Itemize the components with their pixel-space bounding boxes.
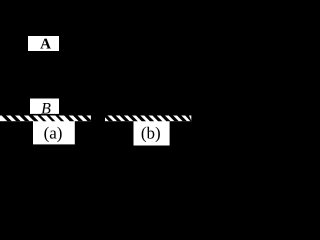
surface (a) hatch stroke 7 [55, 115, 64, 121]
surface (b) hatch stroke 7 [152, 115, 162, 121]
surface (b) hatch stroke 6 [144, 115, 154, 121]
surface (b) hatch stroke 10 [177, 115, 187, 121]
caption box (b) [134, 120, 170, 145]
surface (a) hatch stroke 1 [2, 115, 12, 121]
surface (a) hatch stroke 4 [28, 115, 38, 121]
surface (a) hatch stroke 6 [46, 115, 55, 121]
surface (b) hatch stroke 1 [105, 115, 113, 121]
surface (b) top line [105, 114, 191, 116]
surface (a) white band [0, 115, 91, 121]
surface (b) hatch stroke 8 [161, 115, 171, 121]
caption box (a) [33, 120, 75, 144]
block A [28, 36, 59, 51]
surface (a) hatch stroke 3 [19, 115, 29, 121]
surface (b) hatch stroke 4 [128, 115, 138, 121]
surface (b) hatch stroke 3 [120, 115, 130, 121]
surface (a) hatch stroke 2 [10, 115, 20, 121]
surface (b) hatch stroke 11 [185, 115, 191, 121]
svg-text:A: A [40, 37, 51, 53]
svg-text:(a): (a) [44, 123, 63, 142]
surface (a) hatch stroke 8 [64, 115, 74, 121]
surface (a) top line [0, 114, 91, 116]
surface (a) hatch stroke 10 [82, 115, 91, 121]
surface (b) hatch stroke 2 [111, 115, 121, 121]
surface (a) hatch stroke 5 [37, 115, 46, 121]
svg-text:(b): (b) [141, 123, 161, 142]
surface (a) hatch stroke 9 [73, 115, 83, 121]
surface (b) hatch stroke 9 [169, 115, 179, 121]
surface (b) white band [105, 115, 191, 121]
surface (b) hatch stroke 5 [136, 115, 146, 121]
block B [30, 99, 59, 115]
